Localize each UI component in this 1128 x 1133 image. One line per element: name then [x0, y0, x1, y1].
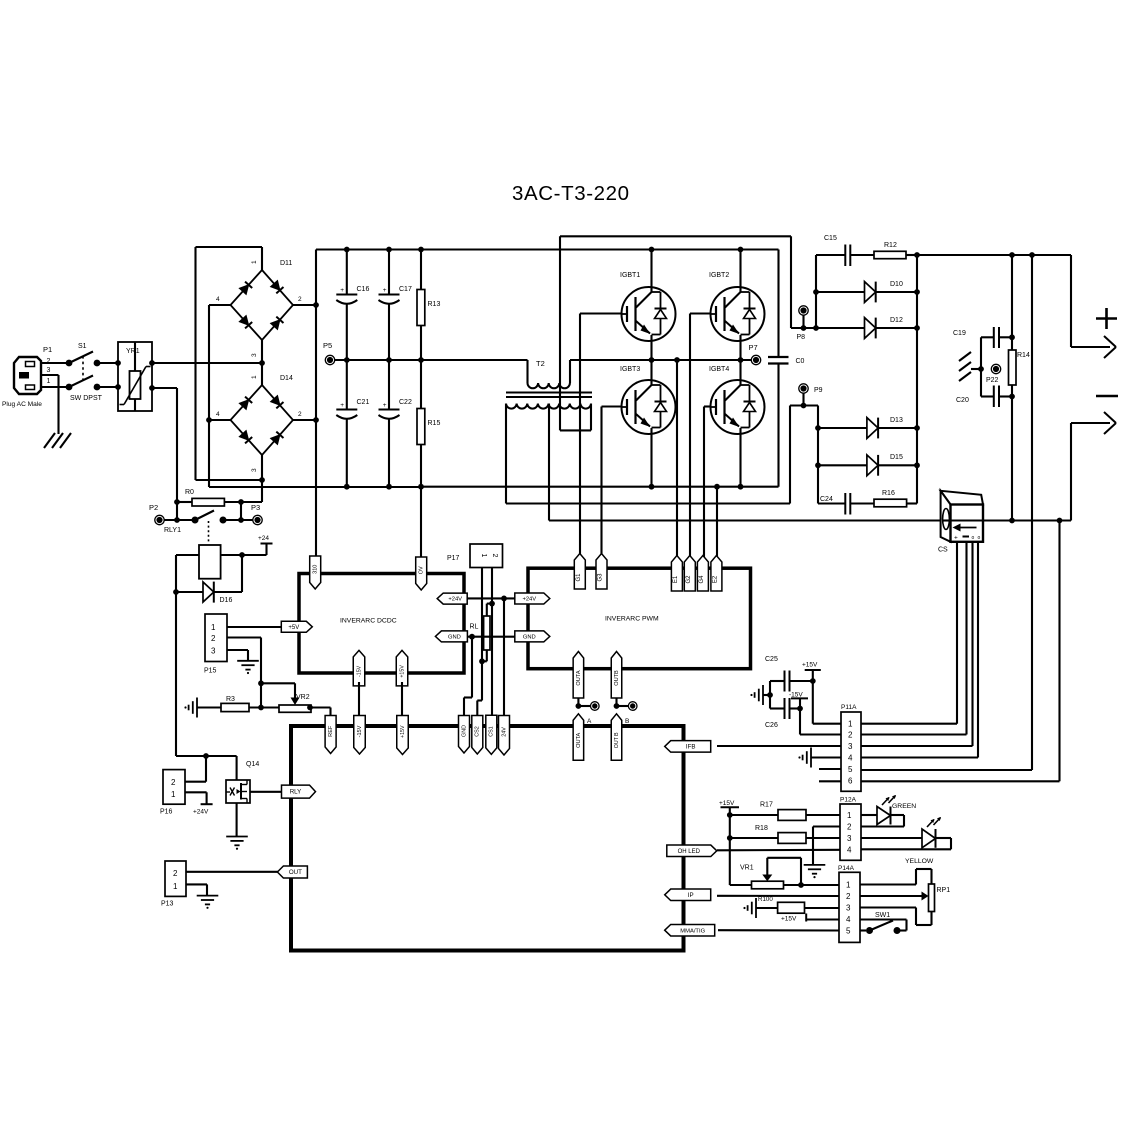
svg-text:3: 3: [847, 834, 852, 843]
svg-text:4: 4: [216, 411, 220, 418]
net tag RLY: [282, 785, 316, 798]
resistor R100: [756, 896, 839, 913]
svg-text:IGBT2: IGBT2: [709, 272, 729, 279]
wire coil left branch: [173, 555, 199, 756]
svg-text:P16: P16: [160, 809, 173, 816]
earth ground C25: [750, 685, 772, 705]
wire +15V column: [727, 812, 733, 885]
svg-text:G4: G4: [699, 575, 705, 584]
svg-text:GND: GND: [461, 725, 467, 737]
svg-text:R14: R14: [1017, 352, 1030, 359]
wire plus sense to P11A pin5: [861, 255, 1032, 770]
svg-text:D12: D12: [890, 317, 903, 324]
svg-text:MMA/TIG: MMA/TIG: [680, 928, 705, 934]
wire OUTA link: [576, 698, 591, 709]
svg-text:+15V: +15V: [399, 665, 405, 678]
wire mid rail right section: [570, 359, 751, 361]
svg-text:D14: D14: [280, 375, 293, 382]
svg-text:R3: R3: [226, 696, 235, 703]
net tag DCDC +24V: [437, 593, 467, 604]
resistor R17: [730, 802, 841, 821]
earth ground P12A: [804, 865, 826, 878]
wire P8 node: [791, 255, 819, 331]
svg-text:D13: D13: [890, 417, 903, 424]
svg-text:4: 4: [216, 296, 220, 303]
svg-text:RP1: RP1: [937, 887, 951, 894]
net tag G3: [596, 554, 607, 590]
net tag G1: [574, 554, 585, 590]
svg-text:INVERARC PWM: INVERARC PWM: [605, 616, 659, 623]
net tag G4: [697, 556, 708, 592]
net tag box OUTA: [573, 714, 584, 761]
earth ground P15: [237, 661, 259, 674]
svg-text:OV: OV: [419, 566, 425, 574]
svg-text:IGBT4: IGBT4: [709, 366, 729, 373]
resistor R12: [874, 242, 917, 259]
svg-text:SW1: SW1: [875, 912, 890, 919]
wire P17 pin1 CS2 column: [477, 568, 487, 717]
net tag PWM OUTA: [573, 652, 584, 699]
net tag 24V: [499, 716, 510, 756]
svg-text:IP: IP: [688, 892, 694, 899]
transistor IGBT1: [620, 247, 676, 363]
svg-text:P5: P5: [323, 341, 332, 350]
connector P14A: [838, 865, 860, 942]
capacitor C20: [956, 386, 1015, 408]
wire T2 secondary right end loop: [560, 236, 591, 430]
svg-text:2: 2: [846, 892, 851, 901]
chassis ground at P22: [959, 352, 981, 381]
net tag 15V: [397, 716, 409, 755]
capacitor C22: [379, 360, 412, 490]
svg-text:OUT: OUT: [289, 869, 302, 876]
pad P9: [799, 384, 823, 409]
svg-text:R12: R12: [884, 242, 897, 249]
svg-text:+: +: [340, 287, 344, 294]
net tag DCDC out 15V: [353, 650, 365, 686]
wire P15 pin1 to +5V tag: [227, 626, 283, 628]
resistor R15: [417, 360, 440, 490]
diode D16: [176, 555, 242, 604]
earth ground P13: [197, 896, 219, 909]
svg-text:C19: C19: [953, 330, 966, 337]
diode D12: [816, 317, 920, 338]
svg-text:GND: GND: [523, 635, 536, 641]
pad P3: [251, 503, 262, 525]
svg-text:4: 4: [848, 754, 853, 763]
svg-text:+: +: [954, 535, 958, 542]
resistor R16: [874, 490, 917, 507]
node AC1 junction: [259, 360, 265, 366]
net tag PWM GND: [515, 631, 550, 642]
svg-text:OUTB: OUTB: [614, 670, 620, 686]
wire switch to YR1 top: [97, 362, 118, 364]
capacitor C17: [379, 247, 412, 363]
power -15V symbol C26: [789, 692, 808, 709]
svg-text:IGBT3: IGBT3: [620, 366, 640, 373]
transistor Q14: [226, 761, 259, 803]
svg-text:R17: R17: [760, 802, 773, 809]
svg-text:D15: D15: [890, 454, 903, 461]
svg-text:D11: D11: [280, 260, 292, 267]
svg-text:+5V: +5V: [288, 625, 299, 631]
plus output terminal: [1071, 255, 1117, 358]
inverarc DCDC module box: [299, 574, 464, 674]
svg-text:GND: GND: [448, 635, 461, 641]
current sensor CS: [938, 491, 983, 554]
wire minus sense to P11A pin6: [861, 521, 1060, 782]
svg-text:1: 1: [251, 375, 258, 379]
transformer T2: [506, 359, 592, 409]
svg-text:Q14: Q14: [246, 761, 259, 768]
svg-text:+: +: [383, 402, 387, 409]
wire bottom DC rail: [209, 486, 779, 488]
wire bridge minus column: [206, 305, 212, 487]
capacitor C24: [818, 493, 874, 515]
earth ground R3: [184, 698, 197, 718]
svg-text:IFB: IFB: [686, 744, 696, 751]
power +15V symbol R17: [719, 800, 739, 815]
net tag PWM +24V: [515, 593, 550, 604]
resistor R13: [417, 247, 440, 363]
svg-text:R16: R16: [882, 490, 895, 497]
diode D15: [815, 454, 920, 476]
svg-text:1: 1: [480, 554, 487, 558]
svg-text:D16: D16: [220, 597, 233, 604]
svg-text:Plug AC Male: Plug AC Male: [2, 401, 42, 408]
connector P12A: [840, 797, 861, 861]
switch SW1: [860, 912, 907, 934]
svg-text:OUTA: OUTA: [576, 670, 582, 685]
svg-text:E1: E1: [673, 575, 679, 583]
wire P13 pin1 to ground: [186, 884, 207, 895]
svg-text:2: 2: [298, 296, 302, 303]
resistor RL: [470, 616, 491, 650]
wire DCDC -5V down: [401, 682, 403, 716]
svg-text:R0: R0: [185, 489, 194, 496]
net tag DCDC input plus: [310, 555, 321, 589]
connector P1 AC plug: [2, 345, 52, 408]
wire IFB line: [717, 745, 841, 747]
svg-text:C17: C17: [399, 286, 412, 293]
svg-text:B: B: [625, 718, 629, 725]
transistor IGBT2: [709, 247, 765, 363]
net tag IFB: [665, 741, 711, 753]
svg-text:+24V: +24V: [448, 597, 462, 603]
wire VR2 to REF tag: [311, 708, 331, 717]
wire AC line2 YR1 to relay branch: [152, 388, 177, 520]
wire P16 pin1 to +24V: [185, 792, 213, 815]
node B pad: [625, 702, 637, 725]
net tag E2: [711, 556, 722, 592]
bridge rectifier D14: [209, 363, 316, 480]
svg-text:C20: C20: [956, 397, 969, 404]
wire R14 column top: [1009, 255, 1015, 350]
svg-text:CS1: CS1: [489, 726, 495, 737]
capacitor C25: [765, 656, 816, 692]
svg-text:1: 1: [47, 378, 51, 385]
net tag REF: [325, 716, 336, 754]
svg-text:C25: C25: [765, 656, 778, 663]
net tag E1: [671, 556, 682, 592]
svg-text:OH LED: OH LED: [678, 849, 701, 855]
svg-text:o: o: [972, 535, 975, 541]
wire CS pin3 to P11A: [861, 542, 973, 746]
wire emitter sense E2: [714, 484, 720, 560]
svg-text:3: 3: [251, 468, 258, 472]
svg-text:YR1: YR1: [126, 348, 140, 355]
diode D13: [815, 417, 920, 438]
connector P16: [160, 770, 185, 816]
svg-text:1: 1: [171, 790, 176, 799]
svg-text:R18: R18: [755, 825, 768, 832]
main control board box: [291, 726, 684, 951]
svg-text:1: 1: [211, 623, 216, 632]
diode D10: [813, 281, 920, 302]
svg-text:C21: C21: [357, 399, 370, 406]
power +15V symbol P14A: [781, 914, 839, 923]
wire OUTB link: [614, 698, 628, 709]
svg-text:P14A: P14A: [838, 865, 855, 872]
pad P8: [797, 306, 809, 341]
svg-text:P1: P1: [43, 345, 52, 354]
svg-text:4: 4: [847, 845, 852, 854]
svg-text:4: 4: [846, 915, 851, 924]
svg-text:RLY: RLY: [290, 789, 302, 796]
svg-text:P3: P3: [251, 503, 260, 512]
wire gate G4: [704, 407, 711, 561]
svg-text:C0: C0: [796, 358, 805, 365]
wire C25 C26 left: [769, 681, 771, 709]
net tag -15V: [354, 716, 366, 755]
wire OH LED line: [717, 849, 841, 852]
svg-text:2: 2: [298, 411, 302, 418]
potentiometer VR2: [279, 694, 313, 712]
wire AC line1 YR1 to bridge node: [152, 362, 262, 364]
svg-text:RLY1: RLY1: [164, 527, 181, 534]
wire P11A pin6 stub: [819, 780, 841, 782]
wire P11A pin5 stub: [819, 768, 841, 770]
svg-text:3: 3: [846, 904, 851, 913]
svg-text:+24V: +24V: [522, 597, 536, 603]
svg-text:P17: P17: [447, 555, 460, 562]
wire P3 column: [240, 502, 242, 520]
node A pad: [587, 702, 599, 725]
svg-text:C16: C16: [357, 286, 370, 293]
wire cap midpoint line: [335, 359, 528, 361]
svg-text:G2: G2: [686, 575, 692, 584]
wire P15 pin2 to VR2 wiper: [227, 638, 295, 708]
connector P17: [447, 544, 503, 568]
svg-text:+15V: +15V: [802, 662, 818, 669]
earth ground R100: [743, 898, 756, 918]
wire gate G2: [690, 314, 711, 561]
wire gate G1: [580, 314, 622, 559]
svg-text:C24: C24: [820, 496, 833, 503]
svg-text:2: 2: [211, 634, 216, 643]
svg-text:1: 1: [846, 881, 851, 890]
wire P9 node: [790, 406, 818, 504]
svg-text:P7: P7: [749, 343, 758, 352]
svg-text:6: 6: [848, 777, 853, 786]
svg-text:+24V: +24V: [193, 809, 209, 816]
wire plug pin2 to switch: [41, 362, 69, 364]
frame wire T2 to P8 branch: [560, 236, 791, 328]
svg-text:-15V: -15V: [357, 725, 363, 737]
svg-text:o: o: [978, 535, 981, 541]
bridge outer loop wire: [196, 247, 263, 480]
svg-text:P22: P22: [986, 377, 999, 384]
wire P13 pin2 to OUT tag: [186, 871, 278, 873]
transistor IGBT3: [620, 360, 676, 490]
svg-text:3: 3: [848, 742, 853, 751]
wire CS pin2 to P11A: [861, 542, 967, 735]
LED GREEN: [861, 795, 916, 827]
minus output terminal: [1071, 396, 1118, 521]
wire CS pin1 to P11A: [861, 542, 957, 724]
relay contact RLY1: [164, 511, 253, 545]
svg-text:+15V: +15V: [400, 725, 406, 738]
svg-text:OUTA: OUTA: [576, 732, 582, 747]
resistor R0: [174, 489, 262, 506]
bridge rectifier D11: [209, 247, 316, 363]
svg-text:1: 1: [173, 882, 178, 891]
svg-text:YELLOW: YELLOW: [905, 858, 934, 865]
wire P16 pin2: [185, 756, 206, 782]
earth ground P11A pin4: [798, 748, 841, 768]
wire gate G3: [602, 407, 622, 559]
wire Q14 source to ground: [236, 803, 238, 837]
svg-text:CS2: CS2: [475, 726, 481, 737]
svg-text:A: A: [587, 718, 592, 725]
svg-text:2: 2: [848, 731, 853, 740]
power +24 symbol: [258, 535, 273, 544]
chassis ground at plug: [44, 433, 71, 448]
svg-text:3: 3: [251, 353, 258, 357]
svg-text:P15: P15: [204, 668, 217, 675]
wire DCDC 15V down: [358, 682, 360, 716]
wire coil right to +24: [221, 544, 267, 558]
net tag G2: [684, 556, 695, 592]
svg-text:2: 2: [173, 869, 178, 878]
net tag PWM OUTB: [611, 652, 622, 699]
wire IP line: [717, 895, 839, 897]
net tag DCDC GND: [435, 631, 467, 642]
svg-text:3AC-T3-220: 3AC-T3-220: [512, 182, 630, 205]
wire +15V to P11A pin1: [813, 681, 841, 724]
relay coil RLY1: [199, 545, 221, 579]
pad P22: [986, 364, 1001, 384]
svg-text:1: 1: [847, 811, 852, 820]
svg-text:P9: P9: [814, 387, 823, 394]
connector P15: [204, 614, 227, 675]
capacitor C21: [336, 360, 369, 490]
svg-text:1: 1: [848, 720, 853, 729]
net tag OH LED: [667, 845, 717, 857]
svg-text:2: 2: [847, 823, 852, 832]
svg-text:2: 2: [171, 778, 176, 787]
svg-text:3: 3: [211, 647, 216, 656]
wire CS pin4 to P11A: [861, 542, 978, 758]
wire P15 pin3 to ground: [227, 650, 248, 661]
svg-text:CS: CS: [938, 547, 948, 554]
wire T2 secondary centre tap down: [548, 404, 550, 521]
wire switch to YR1 bottom: [97, 386, 118, 388]
inverarc PWM module box: [528, 568, 751, 669]
svg-text:D10: D10: [890, 281, 903, 288]
svg-text:1: 1: [251, 260, 258, 264]
svg-text:310: 310: [313, 565, 319, 574]
svg-text:G3: G3: [598, 573, 604, 582]
wire Q14 to RLY tag: [250, 791, 281, 793]
resistor R3: [197, 696, 279, 712]
svg-text:C15: C15: [824, 235, 837, 242]
wire welding minus line: [549, 519, 950, 521]
svg-text:R15: R15: [428, 420, 441, 427]
power +15V symbol C25: [802, 662, 821, 682]
svg-text:P12A: P12A: [840, 797, 857, 804]
wire plug pin1 to switch: [41, 386, 69, 388]
wire R0 to bridge node: [261, 480, 263, 502]
pad P5: [323, 341, 335, 365]
svg-text:R13: R13: [428, 301, 441, 308]
svg-text:OUT B: OUT B: [614, 732, 620, 748]
svg-text:SW DPST: SW DPST: [70, 395, 103, 402]
wire 24V column: [503, 598, 505, 716]
svg-text:VR1: VR1: [740, 865, 754, 872]
svg-text:P2: P2: [149, 503, 158, 512]
net tag +5V: [281, 621, 312, 632]
svg-text:E2: E2: [712, 575, 718, 583]
svg-text:+24: +24: [258, 535, 269, 542]
transistor IGBT4: [709, 360, 765, 490]
wire relay drive branch: [176, 753, 237, 780]
svg-text:3: 3: [47, 367, 51, 374]
pad P7: [749, 343, 761, 365]
wire GND link line: [464, 634, 515, 640]
wire welding line continue: [983, 518, 1071, 524]
wire plug pin3 to earth: [41, 375, 59, 434]
svg-text:24V: 24V: [501, 727, 507, 737]
net tag CS2: [472, 716, 483, 755]
net tag DCDC out -5V: [396, 650, 408, 686]
LED YELLOW: [861, 817, 951, 865]
wire P17 pin2 CS1 column: [487, 568, 495, 717]
switch S1 DPST: [66, 343, 103, 402]
svg-text:VR2: VR2: [296, 694, 310, 701]
wire +24V link line: [464, 596, 515, 602]
svg-text:P11A: P11A: [841, 704, 857, 711]
net tag MMA/TIG: [665, 924, 715, 936]
svg-text:-15V: -15V: [356, 665, 362, 677]
resistor R18: [730, 825, 841, 843]
wire MMA TIG line: [718, 929, 839, 931]
net tag box OUT B: [611, 714, 622, 761]
net tag OUT: [277, 866, 307, 878]
net tag IP: [665, 889, 711, 901]
wire R14 column bottom: [1009, 397, 1015, 523]
svg-text:S1: S1: [78, 343, 87, 350]
svg-text:C26: C26: [765, 722, 778, 729]
svg-text:+15V: +15V: [719, 800, 735, 807]
capacitor C26: [765, 698, 803, 729]
node D14 AC2 junction: [259, 477, 265, 483]
varistor YR1: [115, 342, 155, 411]
net tag DCDC input minus: [416, 487, 427, 590]
svg-text:GREEN: GREEN: [892, 803, 916, 810]
potentiometer VR1: [730, 858, 839, 889]
net tag GND: [459, 716, 470, 754]
